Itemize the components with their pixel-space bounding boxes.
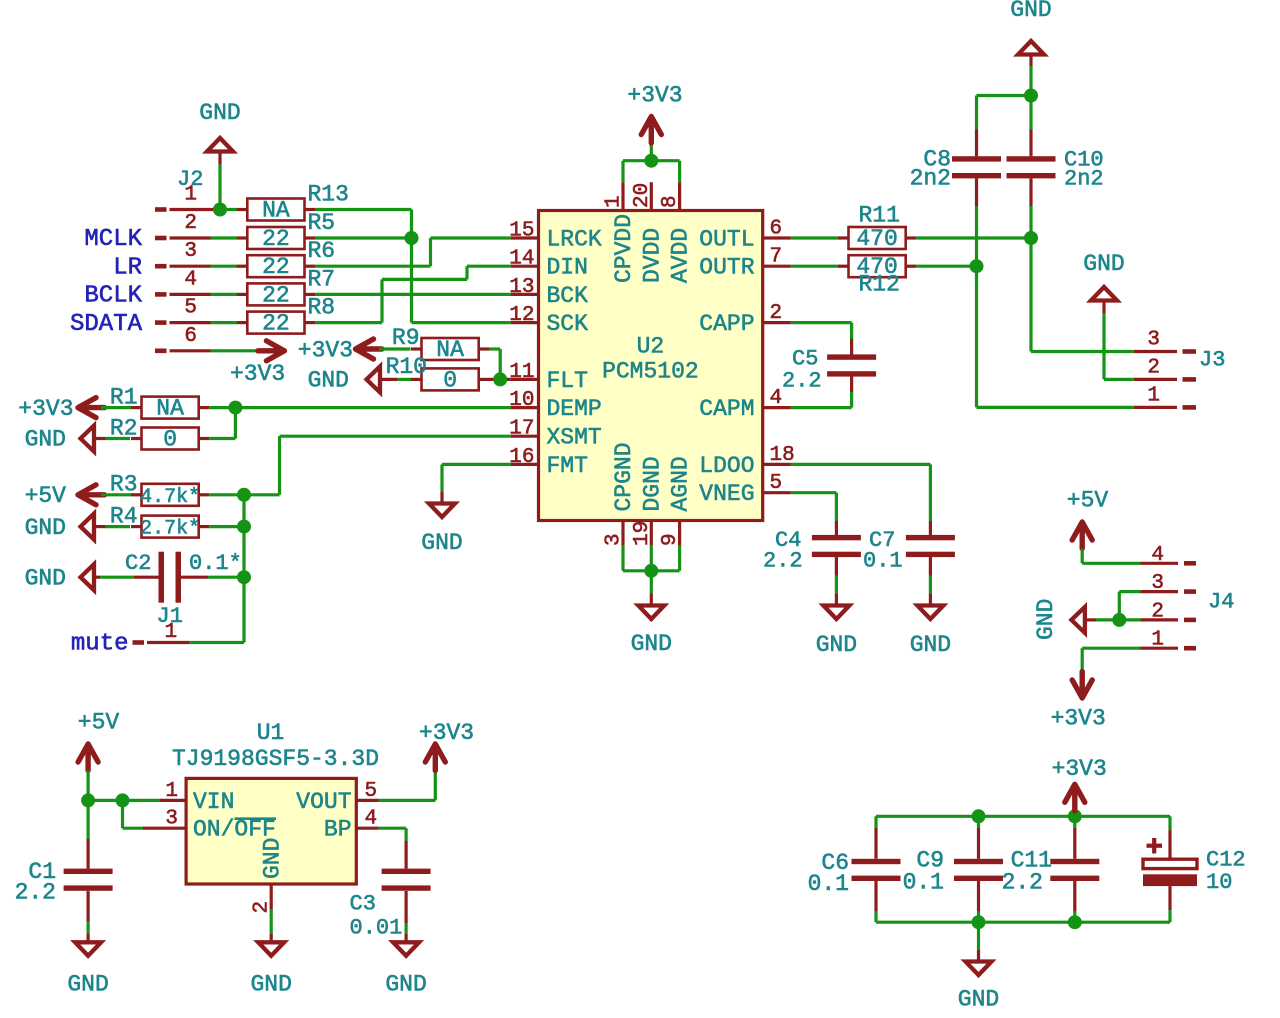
svg-text:CPGND: CPGND bbox=[611, 442, 637, 511]
svg-text:R1: R1 bbox=[110, 385, 138, 411]
svg-text:NA: NA bbox=[156, 396, 184, 422]
wire R8 jog up bbox=[380, 279, 383, 322]
junction VIN/ONOFF bbox=[116, 793, 130, 807]
svg-text:3: 3 bbox=[603, 533, 626, 546]
U1 pin 1 VIN bbox=[160, 780, 234, 815]
svg-text:LRCK: LRCK bbox=[547, 227, 602, 253]
net label MCLK bbox=[84, 226, 142, 253]
resistor R13 value NA bbox=[262, 198, 290, 224]
wire J2 pin6 to +3V3 bbox=[211, 349, 259, 352]
power symbol +3V3 at bank bbox=[1065, 784, 1085, 811]
U2 pin 11 FLT bbox=[509, 361, 588, 394]
resistor R4 bbox=[131, 516, 209, 538]
wire R2 out bbox=[209, 437, 235, 440]
op-amp U2 body (PCM5102 DAC) bbox=[539, 211, 763, 521]
wire GND stem to J2 pin1 bbox=[218, 152, 221, 210]
svg-text:5: 5 bbox=[770, 472, 783, 495]
wire U1 GND pin down bbox=[270, 909, 273, 934]
wire +3V3 bus bbox=[623, 159, 680, 162]
wire +3V3 bus drop bbox=[621, 161, 624, 183]
svg-text:1: 1 bbox=[1151, 629, 1164, 652]
J2 pin number 4 bbox=[184, 268, 197, 291]
resistor R12 bbox=[838, 255, 916, 277]
resistor R5 reference label bbox=[308, 210, 336, 236]
resistor R6 reference label bbox=[308, 238, 336, 264]
svg-text:U2: U2 bbox=[637, 334, 665, 360]
connector J3 pin 3 bbox=[1134, 350, 1196, 353]
capacitor C11 reference bbox=[1011, 848, 1052, 874]
svg-text:OUTL: OUTL bbox=[699, 227, 754, 253]
wire +3V3 top rail bbox=[876, 815, 1170, 818]
ground symbol at J4 bbox=[1071, 607, 1085, 633]
svg-text:+3V3: +3V3 bbox=[627, 83, 682, 109]
wire GND bus riser bbox=[678, 545, 681, 571]
svg-text:2.2: 2.2 bbox=[763, 549, 803, 574]
U2 pin 13 BCK bbox=[509, 276, 588, 309]
svg-text:2: 2 bbox=[1151, 600, 1164, 623]
ground label at J4 bbox=[1033, 599, 1059, 640]
svg-text:GND: GND bbox=[1033, 599, 1059, 640]
capacitor C10 reference bbox=[1064, 148, 1104, 173]
svg-text:15: 15 bbox=[509, 220, 534, 243]
capacitor C3 reference bbox=[350, 892, 376, 917]
ground label below C4 bbox=[816, 632, 857, 658]
wire BP drop bbox=[405, 828, 408, 841]
svg-text:19: 19 bbox=[631, 521, 654, 546]
svg-text:VIN: VIN bbox=[193, 789, 234, 815]
wire R8 jog across bbox=[382, 278, 467, 281]
power label GND at R4 bbox=[25, 515, 66, 541]
resistor R8 reference label bbox=[308, 295, 336, 321]
connector J4 pin 2 bbox=[1141, 618, 1197, 621]
capacitor C8 bbox=[952, 130, 1001, 207]
capacitor C5 reference bbox=[792, 347, 818, 372]
svg-text:GND: GND bbox=[385, 972, 426, 998]
svg-text:+3V3: +3V3 bbox=[230, 361, 285, 387]
ground symbol below C4 bbox=[823, 606, 849, 620]
resistor R3 reference label bbox=[110, 471, 138, 497]
wire C10 bottom to OUTL net bbox=[1029, 206, 1032, 238]
svg-text:470: 470 bbox=[856, 226, 897, 252]
svg-text:DGND: DGND bbox=[639, 456, 665, 511]
wire R4 out bbox=[209, 525, 244, 528]
svg-text:1: 1 bbox=[165, 621, 178, 644]
svg-text:6: 6 bbox=[770, 218, 783, 241]
svg-text:2: 2 bbox=[770, 302, 783, 325]
svg-text:GND: GND bbox=[25, 427, 66, 453]
net label BCLK bbox=[84, 283, 142, 310]
svg-text:3: 3 bbox=[1147, 329, 1160, 352]
net label LR bbox=[113, 254, 142, 281]
wire XSMT to U2 pin17 bbox=[280, 435, 511, 438]
svg-text:22: 22 bbox=[262, 254, 290, 280]
resistor R7 value 22 bbox=[262, 282, 290, 308]
svg-text:GND: GND bbox=[910, 632, 951, 658]
power symbol +5V at R3 bbox=[78, 485, 105, 505]
U2 pin 20 DVDD bbox=[631, 182, 666, 283]
capacitor C2 value 0.1* bbox=[189, 551, 242, 576]
ground symbol below C7 bbox=[917, 606, 943, 620]
wire J2 pin2 to resistor bbox=[211, 236, 238, 239]
wire FMT GND drop bbox=[440, 464, 443, 492]
wire +3V3 bus drop bbox=[678, 161, 681, 183]
capacitor C11 bbox=[1050, 828, 1099, 912]
ground label below U2 bbox=[631, 631, 672, 657]
wire C9 bottom lead bbox=[977, 912, 980, 922]
svg-text:2n2: 2n2 bbox=[1064, 167, 1104, 192]
svg-text:CPVDD: CPVDD bbox=[611, 214, 637, 283]
junction C2 net bbox=[237, 570, 251, 584]
U2 pin 6 OUTL bbox=[699, 218, 791, 253]
wire C8 top lead bbox=[975, 96, 978, 130]
wire J4 pin1 link bbox=[1082, 647, 1140, 650]
capacitor C12 value 10 bbox=[1206, 870, 1232, 895]
wire R3 out bbox=[209, 493, 244, 496]
wire OUTR net to J3 pin1 bbox=[977, 406, 1134, 409]
U2 pin 12 SCK bbox=[509, 304, 588, 337]
ground symbol below C3 bbox=[393, 942, 419, 956]
U2 pin 8 AVDD bbox=[659, 182, 694, 283]
regulator U1 body (TJ9198GSF5-3.3D) bbox=[186, 778, 356, 884]
connector J2 pin 4 bbox=[155, 292, 211, 297]
U2 pin 2 CAPP bbox=[699, 302, 791, 337]
power label +3V3 at bank bbox=[1052, 756, 1107, 782]
wire +5V to J4 pin4 drop bbox=[1081, 549, 1084, 564]
svg-text:2.2: 2.2 bbox=[782, 369, 822, 394]
resistor R6 value 22 bbox=[262, 254, 290, 280]
svg-text:2.2: 2.2 bbox=[1002, 870, 1043, 896]
U2 pin 14 DIN bbox=[509, 248, 588, 281]
resistor R9 bbox=[411, 338, 489, 360]
resistor R13 reference label bbox=[308, 182, 349, 208]
capacitor C8 value 2n2 bbox=[910, 166, 951, 192]
wire GND stem at bank bbox=[977, 922, 980, 961]
svg-text:0.1: 0.1 bbox=[808, 871, 849, 897]
connector J2 pin 5 bbox=[155, 320, 211, 325]
svg-text:LDOO: LDOO bbox=[699, 453, 754, 479]
connector J3 pin 1 bbox=[1134, 406, 1196, 409]
capacitor C1 bbox=[64, 839, 113, 922]
power label +5V at J4 bbox=[1067, 488, 1109, 514]
J4 pin number 2 bbox=[1151, 600, 1164, 623]
power label +3V3 at R1 bbox=[18, 396, 73, 422]
net label mute bbox=[71, 631, 129, 658]
capacitor C11 value 2.2 bbox=[1002, 870, 1043, 896]
capacitor C7 reference bbox=[869, 528, 895, 553]
capacitor C2 reference bbox=[125, 551, 151, 576]
resistor R6 bbox=[237, 255, 315, 277]
connector J4 pin 4 bbox=[1141, 562, 1197, 565]
capacitor C8 reference bbox=[923, 147, 951, 173]
svg-text:FLT: FLT bbox=[547, 368, 588, 394]
resistor R9 reference label bbox=[392, 325, 420, 351]
net label SDATA bbox=[70, 311, 143, 338]
resistor R10 bbox=[411, 368, 489, 390]
ground symbol at C2 bbox=[81, 564, 95, 590]
wire C1 top lead bbox=[86, 800, 89, 839]
connector J3 pin 2 bbox=[1134, 378, 1196, 381]
wire GND bus riser bbox=[621, 545, 624, 571]
svg-text:R4: R4 bbox=[110, 503, 138, 529]
svg-text:CAPM: CAPM bbox=[699, 396, 754, 422]
J3 pin number 3 bbox=[1147, 329, 1160, 352]
wire J1 to mute net bbox=[189, 641, 244, 644]
power label GND at R2 bbox=[25, 427, 66, 453]
U1 reference bbox=[257, 720, 285, 746]
wire XSMT vertical bbox=[278, 436, 281, 495]
wire R6 out bbox=[315, 265, 431, 268]
wire OUTL net to J3 pin3 bbox=[1029, 238, 1032, 352]
svg-text:GND: GND bbox=[25, 515, 66, 541]
ground symbol at R2 bbox=[81, 426, 95, 452]
ground symbol at J3 bbox=[1091, 287, 1117, 301]
capacitor C7 bbox=[906, 521, 955, 576]
wire GND stem to C10 net bbox=[1029, 55, 1032, 96]
resistor R4 value 2.7k* bbox=[140, 518, 200, 541]
wire J2 pin5 to resistor bbox=[211, 321, 238, 324]
wire R7 to BCK U2 pin13 bbox=[315, 293, 511, 296]
ground label below C3 bbox=[385, 972, 426, 998]
svg-text:GND: GND bbox=[1010, 0, 1051, 23]
resistor R5 value 22 bbox=[262, 226, 290, 252]
capacitor C9 bbox=[954, 828, 1003, 912]
svg-text:0.1: 0.1 bbox=[863, 549, 903, 574]
svg-text:22: 22 bbox=[262, 282, 290, 308]
power symbol +3V3 at R9 bbox=[356, 339, 383, 359]
capacitor C5 value 2.2 bbox=[782, 369, 822, 394]
svg-text:R9: R9 bbox=[392, 325, 420, 351]
wire OUTL to R11 bbox=[791, 236, 838, 239]
junction OUTR/C8 bbox=[970, 259, 984, 273]
U1 value TJ9198GSF5-3.3D bbox=[172, 746, 379, 772]
svg-text:R5: R5 bbox=[308, 210, 336, 236]
ground symbol below U2 bbox=[638, 606, 664, 620]
junction R5/R13 bbox=[405, 231, 419, 245]
resistor R4 reference label bbox=[110, 503, 138, 529]
ground symbol below U1 bbox=[258, 942, 284, 956]
svg-text:+5V: +5V bbox=[25, 483, 67, 509]
capacitor C4 bbox=[812, 521, 861, 576]
wire GND to C2 bbox=[94, 576, 134, 579]
capacitor C6 bbox=[852, 828, 901, 912]
capacitor C10 value 2n2 bbox=[1064, 167, 1104, 192]
svg-text:R10: R10 bbox=[386, 354, 427, 380]
J2 pin number 6 bbox=[184, 325, 197, 348]
U2 value PCM5102 bbox=[602, 359, 699, 385]
svg-text:22: 22 bbox=[262, 311, 290, 337]
svg-text:12: 12 bbox=[509, 304, 534, 327]
U2 pin 5 VNEG bbox=[699, 472, 791, 507]
resistor R12 value 470 bbox=[856, 254, 897, 280]
connector J2 pin 1 bbox=[155, 207, 237, 212]
capacitor C12 (polarized) bbox=[1143, 816, 1197, 922]
resistor R10 reference label bbox=[386, 354, 427, 380]
svg-text:R8: R8 bbox=[308, 295, 336, 321]
resistor R1 bbox=[131, 397, 209, 419]
svg-text:0: 0 bbox=[443, 367, 457, 393]
J3 pin number 2 bbox=[1147, 356, 1160, 379]
capacitor C9 value 0.1 bbox=[903, 870, 944, 896]
connector J2 reference bbox=[177, 167, 203, 192]
wire +3V3 to R9 bbox=[379, 347, 411, 350]
svg-text:SCK: SCK bbox=[547, 311, 589, 337]
wire DIN to U2 pin14 bbox=[467, 265, 511, 268]
resistor R11 bbox=[838, 227, 916, 249]
wire +5V down to VIN bbox=[86, 771, 89, 801]
power symbol +3V3 at R1 bbox=[78, 398, 105, 418]
wire J4 pin3 link bbox=[1119, 590, 1140, 593]
resistor R13 bbox=[237, 199, 315, 221]
junction R1/R2 bbox=[228, 401, 242, 415]
connector J2 pin 2 bbox=[155, 236, 211, 241]
J3 pin number 1 bbox=[1147, 384, 1160, 407]
wire GND to J4 pin2 bbox=[1085, 618, 1141, 621]
ground label at J3 bbox=[1083, 251, 1124, 277]
svg-text:OUTR: OUTR bbox=[699, 255, 754, 281]
svg-text:CAPP: CAPP bbox=[699, 311, 754, 337]
power label +5V at U1 bbox=[78, 710, 120, 736]
svg-text:R13: R13 bbox=[308, 182, 349, 208]
wire C3 to GND bbox=[405, 923, 408, 942]
wire C9 top lead bbox=[977, 816, 980, 827]
svg-text:GND: GND bbox=[958, 987, 999, 1013]
wire +5V to R3 bbox=[101, 493, 131, 496]
wire +5V to J4 pin4 bbox=[1082, 562, 1140, 565]
resistor R8 value 22 bbox=[262, 311, 290, 337]
U2 pin 7 OUTR bbox=[699, 246, 791, 281]
svg-text:LR: LR bbox=[113, 254, 142, 281]
svg-text:C12: C12 bbox=[1206, 848, 1246, 873]
power symbol +3V3 at VOUT bbox=[425, 744, 445, 771]
svg-text:+3V3: +3V3 bbox=[419, 720, 474, 746]
connector J3 reference bbox=[1199, 348, 1225, 373]
wire C2 to mute net bbox=[208, 576, 244, 579]
svg-text:10: 10 bbox=[1206, 870, 1232, 895]
wire R5 out bbox=[315, 236, 412, 239]
wire C7 to GND bbox=[929, 576, 932, 606]
power label +5V at R3 bbox=[25, 483, 67, 509]
svg-text:R12: R12 bbox=[859, 272, 900, 298]
power label +3V3 below J4 bbox=[1051, 706, 1106, 732]
svg-text:BCK: BCK bbox=[547, 283, 589, 309]
wire GND stem to J3 pin2 bbox=[1102, 301, 1105, 380]
svg-text:R6: R6 bbox=[308, 238, 336, 264]
power label GND (J2 pin1) bbox=[199, 100, 240, 126]
U2 pin 1 CPVDD bbox=[603, 182, 638, 283]
U1 pin 3 ON/OFF bbox=[143, 808, 276, 843]
U2 pin 4 CAPM bbox=[699, 387, 791, 422]
wire J4 pin1 to +3V3 bbox=[1081, 648, 1084, 671]
wire GND to R10 bbox=[380, 378, 411, 381]
wire SCK to U2 pin12 bbox=[412, 321, 511, 324]
svg-text:XSMT: XSMT bbox=[547, 425, 602, 451]
wire C11 top lead bbox=[1073, 816, 1076, 827]
wire C8 bottom to OUTR net bbox=[975, 206, 978, 407]
wire FMT to GND corner bbox=[442, 463, 511, 466]
wire GND bus riser bbox=[650, 545, 653, 571]
power label +3V3 at R9 bbox=[298, 338, 353, 364]
connector J4 pin 1 bbox=[1141, 647, 1197, 650]
resistor R11 reference label bbox=[859, 203, 900, 229]
wire C5 top lead bbox=[850, 323, 853, 339]
wire R11 out bbox=[916, 236, 1031, 239]
resistor R2 bbox=[131, 428, 209, 450]
J2 pin number 2 bbox=[184, 212, 197, 235]
svg-text:DEMP: DEMP bbox=[547, 396, 602, 422]
wire BP out bbox=[379, 827, 407, 830]
wire mute net vertical bbox=[242, 495, 245, 643]
capacitor C5 bbox=[827, 339, 876, 392]
svg-text:GND: GND bbox=[308, 368, 349, 394]
resistor R11 value 470 bbox=[856, 226, 897, 252]
power +3V3 arrow stem (J2 pin6) bbox=[259, 349, 285, 352]
wire C6 top lead bbox=[874, 816, 877, 827]
capacitor C1 value 2.2 bbox=[15, 880, 56, 906]
svg-text:DVDD: DVDD bbox=[639, 228, 665, 283]
U2 pin 19 DGND bbox=[631, 456, 666, 546]
svg-text:+5V: +5V bbox=[1067, 488, 1109, 514]
svg-text:9: 9 bbox=[659, 533, 682, 546]
svg-text:VOUT: VOUT bbox=[296, 789, 351, 815]
ground symbol at FMT bbox=[429, 504, 455, 518]
resistor R8 bbox=[237, 312, 315, 334]
svg-text:U1: U1 bbox=[257, 720, 285, 746]
svg-text:GND: GND bbox=[260, 838, 286, 879]
wire +3V3 stem bbox=[650, 143, 653, 161]
svg-text:0.1*: 0.1* bbox=[189, 551, 242, 576]
resistor R3 value 4.7k* bbox=[140, 486, 200, 509]
junction R3 net bbox=[237, 488, 251, 502]
wire GND stem below U2 bbox=[650, 571, 653, 606]
junction +3V3 bus bbox=[644, 154, 658, 168]
svg-text:SDATA: SDATA bbox=[70, 311, 143, 338]
resistor R1 value NA bbox=[156, 396, 184, 422]
power label +3V3 at VOUT bbox=[419, 720, 474, 746]
svg-text:GND: GND bbox=[25, 565, 66, 591]
svg-text:1: 1 bbox=[1147, 384, 1160, 407]
wire GND bottom rail bbox=[876, 921, 1170, 924]
wire to J3 pin2 bbox=[1104, 378, 1134, 381]
wire C5 bottom lead bbox=[850, 392, 853, 408]
connector J1 reference bbox=[157, 604, 183, 629]
U2 pin 17 XSMT bbox=[509, 418, 601, 451]
junction C9 top bbox=[972, 809, 986, 823]
svg-text:J4: J4 bbox=[1208, 590, 1234, 615]
wire ONOFF link bbox=[123, 827, 144, 830]
U1 pin 2 GND bbox=[251, 838, 286, 914]
connector J2 pin 3 bbox=[155, 264, 211, 269]
wire C10 top lead bbox=[1029, 96, 1032, 130]
power label +3V3 below J2 pin6 bbox=[230, 361, 285, 387]
capacitor C6 value 0.1 bbox=[808, 871, 849, 897]
power label GND at C2 bbox=[25, 565, 66, 591]
svg-text:3: 3 bbox=[1151, 572, 1164, 595]
svg-text:2.2: 2.2 bbox=[15, 880, 56, 906]
svg-text:R3: R3 bbox=[110, 471, 138, 497]
J4 pin number 3 bbox=[1151, 572, 1164, 595]
svg-text:BCLK: BCLK bbox=[84, 283, 142, 310]
svg-text:4: 4 bbox=[770, 387, 783, 410]
wire J4 pin3 drop bbox=[1118, 592, 1121, 620]
capacitor C9 reference bbox=[916, 848, 944, 874]
svg-text:NA: NA bbox=[436, 337, 464, 363]
U2 pin 3 CPGND bbox=[603, 442, 638, 546]
wire J2 pin4 to resistor bbox=[211, 293, 238, 296]
svg-text:16: 16 bbox=[509, 446, 534, 469]
ground label below C1 bbox=[67, 972, 108, 998]
svg-text:2: 2 bbox=[1147, 356, 1160, 379]
wire U1 GND stub bbox=[270, 934, 273, 942]
